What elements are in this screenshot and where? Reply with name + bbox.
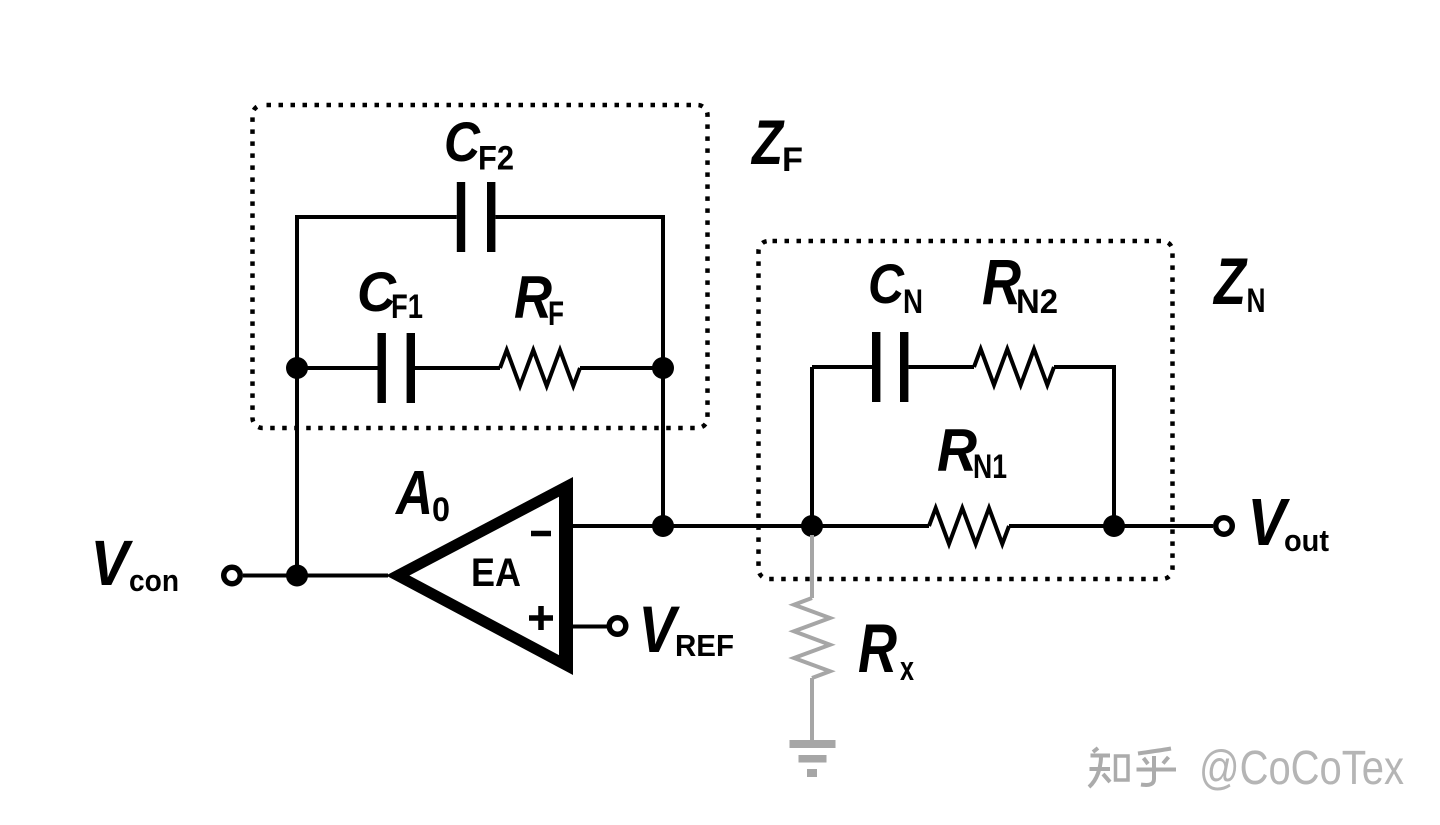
svg-text:N: N xyxy=(903,283,923,321)
wire: C_F2 to Z_F top-right corner xyxy=(495,215,663,219)
watermark 知乎 @CoCoTex xyxy=(1089,748,1176,787)
resistor R_N2 xyxy=(974,349,1054,385)
Z_N dotted box xyxy=(759,241,1173,579)
svg-text:N2: N2 xyxy=(1016,283,1058,321)
wire: op-amp non-inverting input to V_REF xyxy=(573,625,607,629)
wire: Z_N top-left to C_N xyxy=(812,365,872,369)
node: output wire at Z_F right xyxy=(652,515,674,537)
svg-text:A: A xyxy=(394,459,433,528)
svg-text:x: x xyxy=(900,650,914,688)
svg-text:Z: Z xyxy=(1212,244,1248,318)
wire: R_N1 to V_out xyxy=(1009,524,1213,528)
svg-text:F2: F2 xyxy=(478,140,514,178)
label Z_N xyxy=(1212,244,1265,320)
wire: Z_F right vertical xyxy=(661,215,665,526)
label R_F xyxy=(514,264,564,333)
capacitor C_F2 xyxy=(457,182,496,252)
op-amp minus input mark xyxy=(531,531,551,537)
wire: Z_F left vertical xyxy=(295,215,299,576)
svg-text:out: out xyxy=(1284,523,1329,558)
Z_F dotted box xyxy=(253,105,708,428)
svg-text:N1: N1 xyxy=(973,448,1007,486)
node: Z_N right junction xyxy=(1103,515,1125,537)
label V_con xyxy=(91,527,180,599)
wire: V_con to op-amp apex xyxy=(243,574,388,578)
label A_0 xyxy=(394,459,450,529)
svg-text:N: N xyxy=(1247,282,1266,320)
op-amp EA (left-pointing) xyxy=(386,477,573,675)
capacitor C_F1 xyxy=(378,333,416,403)
label V_REF xyxy=(639,592,735,666)
wire: Z_N right vertical xyxy=(1112,365,1116,526)
node: Z_F bottom-left junction xyxy=(286,357,308,379)
label C_F2 xyxy=(444,110,514,178)
ground xyxy=(790,740,836,777)
label Z_F xyxy=(750,108,803,179)
terminal V_out xyxy=(1216,518,1233,535)
svg-text:V: V xyxy=(639,592,681,666)
resistor R_F xyxy=(500,350,580,386)
svg-text:F1: F1 xyxy=(391,288,423,326)
wire: op-amp inverting input to R_N1 xyxy=(573,524,929,528)
wire: gray drop from Z_N left node to R_x xyxy=(810,535,814,598)
svg-text:F: F xyxy=(548,295,564,333)
svg-text:REF: REF xyxy=(675,628,734,663)
terminal V_REF xyxy=(609,618,626,635)
label R_x xyxy=(858,610,914,688)
svg-text:C: C xyxy=(868,252,905,315)
wire: R_F to right node xyxy=(580,366,663,370)
resistor R_N1 xyxy=(929,508,1009,544)
svg-text:V: V xyxy=(91,527,134,599)
svg-text:F: F xyxy=(782,141,803,179)
label R_N1 xyxy=(937,417,1007,486)
wire: node to C_F1 xyxy=(297,366,378,370)
op-amp plus input mark xyxy=(529,606,553,630)
capacitor C_N xyxy=(872,332,908,402)
svg-text:C: C xyxy=(444,110,481,173)
label R_N2 xyxy=(982,246,1058,321)
label C_N xyxy=(868,252,923,321)
svg-text:R: R xyxy=(937,417,977,484)
terminal V_con xyxy=(224,567,241,584)
wire: C_N to R_N2 xyxy=(908,365,974,369)
svg-text:0: 0 xyxy=(432,491,450,529)
wire: Z_F top-left segment to C_F2 xyxy=(297,215,457,219)
resistor R_x (gray) xyxy=(794,598,830,678)
wire: R_x to ground xyxy=(810,678,814,741)
wire: Z_N left vertical xyxy=(810,367,814,526)
label V_out xyxy=(1248,485,1330,560)
node: Z_F bottom-right junction xyxy=(652,357,674,379)
label C_F1 xyxy=(357,260,423,326)
svg-text:R: R xyxy=(858,610,897,687)
svg-text:R: R xyxy=(514,264,552,331)
svg-text:con: con xyxy=(129,563,179,598)
wire: R_N2 to Z_N right vertical xyxy=(1054,365,1114,369)
svg-text:@CoCoTex: @CoCoTex xyxy=(1199,742,1404,795)
svg-text:EA: EA xyxy=(471,551,521,595)
node: V_con junction xyxy=(286,565,308,587)
svg-text:Z: Z xyxy=(750,108,785,178)
wire: C_F1 to R_F xyxy=(415,366,500,370)
node: Z_N left junction xyxy=(801,515,823,537)
